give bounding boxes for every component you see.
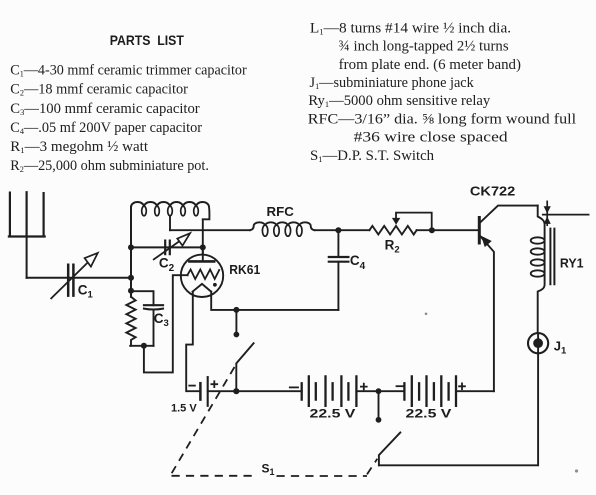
- node R1/C3 bottom junction: [141, 343, 147, 349]
- label B3 plus sign: [459, 383, 465, 389]
- wire C2 line: [131, 246, 203, 248]
- wire relay contact out: [543, 214, 589, 216]
- node C3-branch junction: [128, 288, 134, 294]
- svg-text:S1—D.P. S.T. Switch: S1—D.P. S.T. Switch: [310, 148, 434, 164]
- switch S1b contact stub: [378, 391, 380, 420]
- tube RK61 cathode dot: [213, 283, 217, 287]
- node wiper junction: [429, 227, 435, 233]
- svg-text:R2: R2: [385, 238, 400, 256]
- tube RK61 envelope: [181, 255, 223, 297]
- wire C3 bottom feed: [153, 310, 155, 346]
- node plate junction: [200, 244, 206, 250]
- transistor Q1 emitter arrow: [481, 236, 492, 247]
- jack J1: [528, 333, 548, 353]
- svg-text:C3: C3: [154, 311, 169, 329]
- capacitor C3 plates: [144, 304, 163, 306]
- capacitor C3 branch: [131, 291, 154, 305]
- speck: [575, 469, 578, 472]
- svg-text:from plate end. (6 meter band): from plate end. (6 meter band): [339, 57, 522, 73]
- tube RK61 filament: [193, 284, 212, 292]
- label B2 minus sign: [290, 386, 298, 388]
- relay RY1 coil: [538, 206, 545, 333]
- transistor Q1 collector to relay: [480, 206, 538, 223]
- svg-text:CK722: CK722: [470, 184, 515, 198]
- wire R1/C3 bottom: [130, 345, 153, 347]
- svg-text:PARTS LIST: PARTS LIST: [110, 32, 185, 48]
- wire antenna to C1 to left vertical: [27, 277, 131, 279]
- resistor R1: [126, 297, 135, 346]
- switch S1b blade: [379, 433, 400, 466]
- svg-text:22.5 V: 22.5 V: [310, 407, 356, 421]
- speck: [425, 313, 428, 316]
- battery B3 22.5V plates: [404, 376, 456, 405]
- inductor L1 coil: [131, 202, 209, 219]
- resistor R2: [369, 226, 416, 235]
- wire left vertical: [130, 207, 132, 297]
- transistor Q1 base bar: [478, 218, 481, 244]
- svg-text:C4—.05 mf 200V paper capacitor: C4—.05 mf 200V paper capacitor: [10, 120, 202, 136]
- svg-text:C2: C2: [159, 256, 175, 275]
- svg-text:C3—100 mmf ceramic capacitor: C3—100 mmf ceramic capacitor: [10, 101, 200, 117]
- relay RY1 core: [550, 229, 554, 285]
- label B2 plus sign: [361, 384, 367, 390]
- svg-text:RFC: RFC: [267, 205, 294, 219]
- capacitor C1 arrow: [51, 263, 87, 299]
- inductor RFC coil: [250, 222, 314, 230]
- wire tap to RFC: [170, 229, 250, 231]
- wire antenna stem: [26, 237, 28, 278]
- node RFC/C4 junction: [335, 227, 341, 233]
- node battery junction: [376, 388, 382, 394]
- svg-text:Ry1—5000 ohm sensitive relay: Ry1—5000 ohm sensitive relay: [308, 93, 491, 109]
- wire filament left lead to battery: [186, 292, 200, 392]
- svg-text:C4: C4: [350, 253, 366, 272]
- svg-text:1.5 V: 1.5 V: [171, 402, 197, 414]
- svg-text:RY1: RY1: [560, 256, 584, 271]
- label B1 plus sign: [211, 381, 217, 387]
- svg-text:L1—8 turns #14 wire ½ inch dia: L1—8 turns #14 wire ½ inch dia.: [310, 20, 511, 36]
- relay contact bar: [546, 201, 548, 225]
- transistor Q1 emitter down: [480, 236, 494, 391]
- svg-text:¾ inch long-tapped 2½ turns: ¾ inch long-tapped 2½ turns: [339, 39, 509, 55]
- capacitor C4 top feed: [337, 230, 339, 255]
- wire L1 tap down: [169, 216, 171, 231]
- capacitor C2 plates: [165, 241, 170, 255]
- battery B1 1.5V plates: [199, 383, 202, 399]
- node C1-wire junction: [128, 275, 134, 281]
- tube RK61 plate bar: [189, 260, 214, 263]
- wire battery B3 to emitter riser: [456, 390, 494, 392]
- label B3 minus sign: [397, 385, 404, 387]
- R2 wiper arm: [396, 213, 432, 231]
- svg-text:J1: J1: [554, 339, 567, 357]
- wire J1 down to switch S1b: [379, 353, 538, 465]
- wire cathode to C4: [211, 292, 338, 310]
- svg-text:22.5 V: 22.5 V: [406, 407, 452, 421]
- battery B2 22.5V plates: [302, 376, 357, 405]
- svg-text:C1—4-30 mmf ceramic trimmer ca: C1—4-30 mmf ceramic trimmer capacitor: [10, 63, 247, 79]
- node C2-line left junction: [128, 244, 134, 250]
- svg-text:RFC—3/16” dia. ⅝ long form wou: RFC—3/16” dia. ⅝ long form wound full: [308, 111, 576, 127]
- svg-text:#36 wire close spaced: #36 wire close spaced: [354, 130, 508, 146]
- svg-text:C1: C1: [78, 283, 94, 301]
- capacitor C4 bottom feed: [337, 262, 339, 310]
- capacitor C4 plates: [329, 257, 349, 262]
- label B1 minus sign: [189, 385, 195, 387]
- wire grid lead down and around: [144, 275, 188, 372]
- svg-text:R2—25,000 ohm subminiature pot: R2—25,000 ohm subminiature pot.: [10, 158, 209, 174]
- switch S1a blade: [236, 343, 253, 391]
- wire L1 right end down to plate: [202, 219, 204, 261]
- capacitor C1 (trimmer) plates: [68, 265, 73, 296]
- svg-text:R1—3 megohm ½ watt: R1—3 megohm ½ watt: [10, 139, 148, 155]
- tube RK61 plate lead into bar: [202, 247, 204, 261]
- node cathode/switch junction: [233, 307, 239, 313]
- switch S1a contact stub: [235, 310, 237, 335]
- svg-text:RK61: RK61: [229, 262, 260, 277]
- relay contact arrows: [544, 206, 551, 213]
- wire battery B2 to B3: [356, 390, 404, 392]
- tube RK61 grid zigzag: [187, 270, 219, 280]
- wire battery B1 to junction: [208, 390, 302, 392]
- wire R2 to transistor base: [417, 229, 479, 231]
- capacitor C2 arrow: [154, 237, 185, 259]
- antenna: [9, 192, 45, 236]
- wire RFC to R2: [315, 229, 370, 231]
- svg-text:S1: S1: [262, 462, 275, 478]
- svg-text:J1—subminiature phone jack: J1—subminiature phone jack: [310, 75, 475, 91]
- svg-text:C2—18 mmf ceramic capacitor: C2—18 mmf ceramic capacitor: [10, 82, 188, 98]
- dashed linkage S1: [172, 367, 378, 476]
